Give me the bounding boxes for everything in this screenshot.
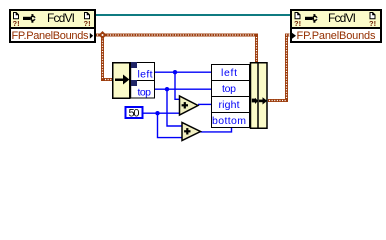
svg-text:?!: ?! bbox=[84, 19, 91, 28]
svg-text:FP.PanelBounds: FP.PanelBounds bbox=[297, 30, 377, 42]
svg-text:bottom: bottom bbox=[212, 115, 246, 127]
svg-text:left: left bbox=[221, 67, 237, 79]
svg-text:?!: ?! bbox=[13, 19, 20, 28]
svg-text:top: top bbox=[222, 83, 236, 95]
svg-text:left: left bbox=[138, 69, 153, 81]
svg-text:right: right bbox=[219, 99, 240, 111]
svg-text:50: 50 bbox=[129, 108, 140, 120]
svg-text:?!: ?! bbox=[369, 19, 376, 28]
svg-text:top: top bbox=[138, 87, 152, 99]
svg-text:FcdVI: FcdVI bbox=[328, 11, 356, 25]
svg-text:FP.PanelBounds: FP.PanelBounds bbox=[12, 30, 90, 42]
svg-text:FcdVI: FcdVI bbox=[47, 11, 75, 25]
svg-text:?!: ?! bbox=[294, 19, 301, 28]
